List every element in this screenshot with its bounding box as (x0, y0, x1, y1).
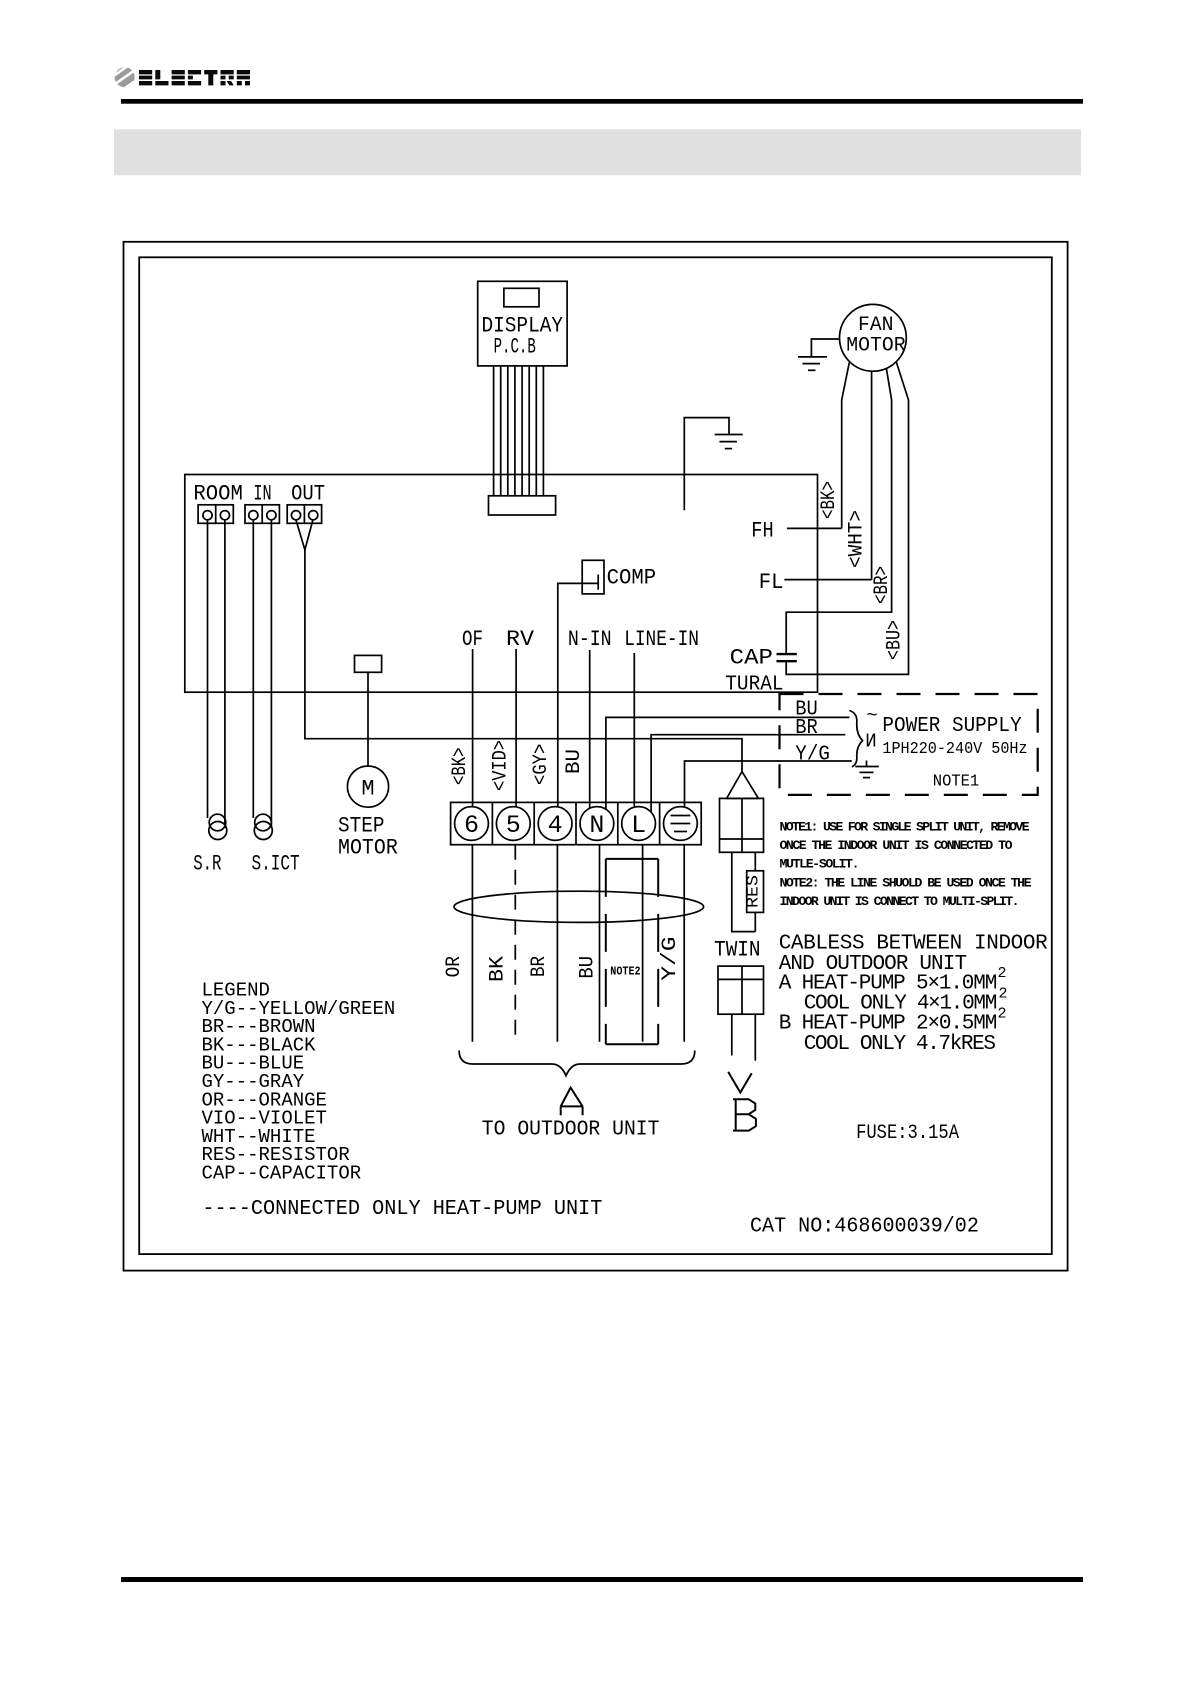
label YG2 rotated (659, 937, 682, 981)
jumper block on board (355, 655, 382, 672)
terminal earth (664, 807, 698, 841)
svg-text:----CONNECTED ONLY HEAT-PUMP U: ----CONNECTED ONLY HEAT-PUMP UNIT (202, 1198, 602, 1221)
label BR power (795, 717, 818, 740)
wire power YG to terminal earth (685, 761, 852, 808)
svg-text:COOL ONLY 4.7kRES: COOL ONLY 4.7kRES (804, 1033, 996, 1056)
NOTE2 dashed box (606, 859, 658, 1044)
svg-text:<BK>: <BK> (818, 481, 841, 519)
arrow V to B (728, 1072, 752, 1093)
label NOTE1 (933, 773, 979, 792)
label FL and wire (759, 570, 872, 595)
ground symbol center board (684, 418, 742, 511)
wire jumper to step motor (367, 672, 369, 766)
wire COMP to terminal 4 (558, 583, 598, 806)
step motor M (338, 766, 398, 861)
label TO OUTDOOR UNIT (482, 1119, 660, 1142)
label FH and wire (751, 519, 841, 544)
main control board outline (185, 475, 818, 693)
svg-text:MUTLE-SOLIT.: MUTLE-SOLIT. (780, 857, 860, 872)
svg-text:CAP--CAPACITOR: CAP--CAPACITOR (202, 1163, 362, 1185)
label RV and wire (506, 627, 535, 807)
terminal 6 (455, 807, 489, 841)
terminal 5 (496, 807, 530, 841)
svg-text:ROOM: ROOM (193, 482, 243, 507)
wire fan BU to CAP bottom (786, 362, 908, 675)
label YG power (795, 744, 830, 767)
fan motor M1 (840, 304, 907, 371)
svg-text:RES: RES (745, 875, 764, 908)
legend text block (202, 980, 396, 1185)
svg-text:6: 6 (464, 811, 479, 840)
wire OUT to TWIN connector (296, 519, 742, 771)
wire power BR to terminal L (651, 735, 845, 812)
brace to outdoor unit (459, 1051, 695, 1076)
svg-text:P.C.B: P.C.B (494, 335, 536, 360)
label WHT rotated (846, 510, 869, 568)
terminal pair IN (245, 505, 279, 524)
label TWIN (714, 938, 760, 963)
svg-text:<WHT>: <WHT> (846, 510, 869, 568)
svg-text:ONCE THE INDOOR UNIT IS CONNEC: ONCE THE INDOOR UNIT IS CONNECTED TO (780, 838, 1013, 853)
svg-text:2: 2 (998, 1006, 1007, 1023)
label CAT NO (750, 1216, 979, 1239)
ground symbol power supply (855, 761, 879, 778)
section marker A (561, 1088, 583, 1116)
svg-text:CAT NO:468600039/02: CAT NO:468600039/02 (750, 1216, 979, 1239)
label BK2 rotated (487, 956, 510, 982)
cable bundle oval (454, 891, 704, 922)
svg-text:M: M (361, 777, 374, 802)
sensor S.R (193, 814, 227, 876)
section marker B (733, 1099, 756, 1130)
logo Electra wordmark (139, 70, 250, 85)
label BU2 rotated (577, 956, 600, 979)
notes text block (780, 820, 1032, 909)
label OF and wire (462, 627, 483, 807)
wire terminal earth down YG (683, 845, 685, 1042)
svg-text:MOTOR: MOTOR (846, 335, 905, 358)
resistor RES (745, 871, 764, 913)
svg-text:Y/G: Y/G (659, 937, 682, 981)
label IN (253, 482, 271, 507)
svg-text:<BU>: <BU> (884, 620, 907, 660)
wire fan BK to FH (842, 363, 850, 529)
svg-text:Y/G: Y/G (795, 744, 830, 767)
label POWER SUPPLY (882, 715, 1022, 738)
terminal pair ROOM (198, 505, 233, 524)
switch symbol power supply (849, 705, 877, 767)
svg-text:S.R: S.R (193, 852, 221, 877)
svg-text:OR: OR (443, 956, 466, 977)
fan motor ground wire (811, 339, 839, 357)
svg-text:BR: BR (528, 956, 551, 977)
svg-text:<GY>: <GY> (530, 744, 553, 785)
label BU power (795, 699, 818, 722)
wire fan BR to CAP top (786, 368, 891, 654)
label OUT (291, 482, 325, 507)
outer border frame (124, 242, 1068, 1271)
label ROOM (193, 482, 243, 507)
TWIN connector lower (718, 966, 764, 1014)
label BU rotated (884, 620, 907, 660)
display PCB module (478, 281, 567, 366)
inner border frame (139, 257, 1052, 1254)
svg-text:OF: OF (462, 627, 483, 652)
label LINE-IN and wire (624, 627, 699, 808)
svg-text:<VID>: <VID> (490, 740, 513, 791)
TWIN connector upper (720, 772, 764, 853)
svg-text:L: L (631, 811, 646, 840)
svg-text:TURAL: TURAL (725, 674, 783, 697)
wire TWIN left leg (732, 852, 756, 931)
terminal 4 (538, 807, 572, 841)
svg-text:N: N (589, 811, 604, 840)
label N-IN and wire (568, 627, 612, 809)
label OR rotated (443, 956, 466, 977)
wires IN to sensor S.ICT (253, 519, 271, 828)
sensor S.ICT (252, 814, 300, 876)
wire resistor bottom (754, 912, 756, 931)
legend dashed note (202, 1198, 602, 1221)
svg-text:TO OUTDOOR UNIT: TO OUTDOOR UNIT (482, 1119, 660, 1142)
terminal block TB1 (451, 802, 702, 844)
svg-text:4: 4 (548, 811, 563, 840)
label BK rotated terminal 6 (449, 748, 472, 786)
svg-text:FL: FL (759, 570, 784, 595)
label GY rotated terminal 4 (530, 744, 553, 785)
header gray banner (114, 129, 1081, 175)
svg-text:FH: FH (751, 519, 773, 544)
svg-text:OUT: OUT (291, 482, 325, 507)
label NOTE2 small (610, 965, 640, 979)
footer rule (121, 1577, 1083, 1582)
svg-text:NOTE1: USE FOR SINGLE SPLIT UN: NOTE1: USE FOR SINGLE SPLIT UNIT, REMOVE (780, 820, 1030, 835)
svg-text:5: 5 (506, 811, 521, 840)
wire terminal 5 down BK dashed (514, 845, 516, 1042)
power supply dashed box (780, 694, 1038, 795)
wire fan WHT to FL (871, 371, 873, 580)
label FUSE (856, 1122, 959, 1145)
wire TWIN right leg to resistor (754, 852, 756, 871)
cables note block (779, 933, 1048, 1057)
svg-text:CAP: CAP (730, 646, 773, 671)
terminal N (580, 807, 614, 841)
ribbon cable wires (494, 366, 544, 496)
svg-text:INDOOR UNIT IS CONNECT TO MULT: INDOOR UNIT IS CONNECT TO MULTI-SPLIT. (780, 894, 1020, 909)
wires ROOM to sensor S.R (208, 519, 225, 828)
label VID rotated terminal 5 (490, 740, 513, 791)
terminal pair OUT (287, 505, 321, 524)
capacitor CAP (730, 646, 797, 671)
label BR2 rotated (528, 956, 551, 977)
svg-text:~: ~ (866, 705, 877, 727)
svg-text:<BR>: <BR> (871, 566, 894, 604)
header rule (121, 99, 1083, 104)
svg-text:BR: BR (795, 717, 818, 740)
wires TWIN lower legs (732, 1014, 756, 1060)
label BR rotated (871, 566, 894, 604)
svg-text:<BK>: <BK> (449, 748, 472, 786)
svg-text:TWIN: TWIN (714, 938, 760, 963)
label TURAL (725, 674, 783, 697)
label BK rotated (818, 481, 841, 519)
label supply rating (882, 740, 1027, 759)
svg-text:1PH220-240V 50Hz: 1PH220-240V 50Hz (882, 740, 1027, 759)
svg-text:BU: BU (577, 956, 600, 979)
ground symbol at fan motor (798, 357, 827, 370)
svg-text:RV: RV (506, 627, 535, 652)
svg-text:COMP: COMP (607, 566, 657, 591)
svg-text:POWER SUPPLY: POWER SUPPLY (882, 715, 1022, 738)
wire terminal L down (642, 845, 644, 1042)
svg-text:NOTE1: NOTE1 (933, 773, 979, 792)
svg-text:N-IN: N-IN (568, 627, 612, 652)
svg-text:И: И (865, 731, 876, 753)
svg-text:MOTOR: MOTOR (338, 836, 398, 861)
compressor relay COMP (582, 560, 656, 594)
svg-text:BK: BK (487, 956, 510, 982)
svg-text:NOTE2: NOTE2 (610, 965, 640, 979)
wire terminal 6 down OR (471, 845, 473, 1042)
label BU rotated terminal N (563, 749, 586, 774)
svg-text:S.ICT: S.ICT (252, 852, 300, 877)
wire terminal N down BU (599, 845, 601, 1042)
svg-text:NOTE2: THE LINE SHUOLD BE USED: NOTE2: THE LINE SHUOLD BE USED ONCE THE (780, 875, 1032, 890)
wire terminal 4 down BR (556, 845, 558, 1042)
ribbon connector J1 (489, 496, 556, 515)
svg-text:LINE-IN: LINE-IN (624, 627, 699, 652)
svg-text:FUSE:3.15A: FUSE:3.15A (856, 1122, 959, 1145)
terminal L (622, 807, 656, 841)
svg-text:2: 2 (999, 986, 1008, 1003)
logo Electra mark (112, 63, 138, 93)
svg-text:2: 2 (998, 965, 1007, 982)
svg-text:BU: BU (563, 749, 586, 774)
svg-text:IN: IN (253, 482, 271, 507)
wire power BU to terminal N (606, 717, 850, 809)
